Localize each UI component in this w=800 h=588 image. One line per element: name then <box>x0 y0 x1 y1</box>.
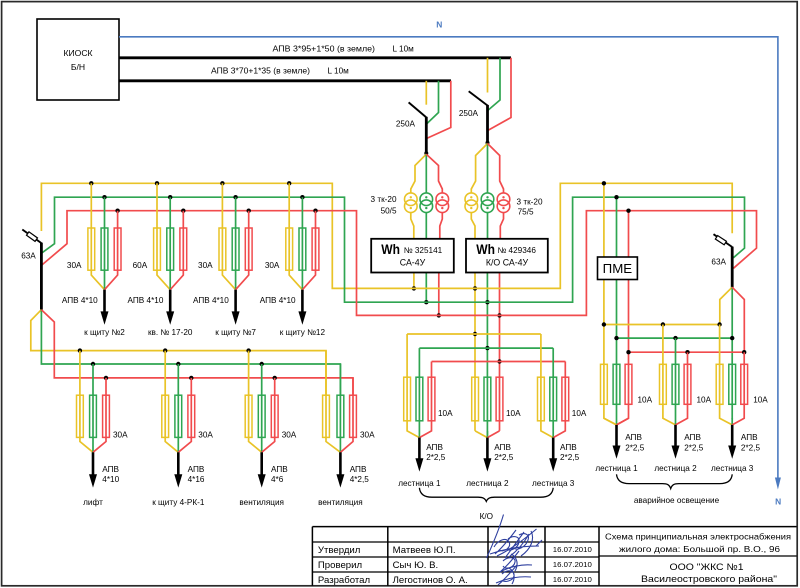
svg-text:К/О СА-4У: К/О СА-4У <box>486 257 529 267</box>
wire phase C to fuse лестница 3 emergency <box>732 352 744 425</box>
fuse 30А phase A (к щиту №7) <box>219 228 226 270</box>
wire phase B QS2 to CT <box>487 144 489 194</box>
CT TA1 phase B <box>420 193 433 206</box>
fuse 30А phase B (к щиту 4-РК-1) <box>175 395 182 437</box>
fuse 30А phase A (к щиту №2) <box>88 228 95 270</box>
feeder arrow вентиляция <box>339 452 342 476</box>
feeder arrow кв. № 17-20 <box>169 290 172 314</box>
wire phase B to fuse лестница 1 K/O <box>418 348 420 438</box>
wire phase B drop to switch QS1 <box>427 81 439 124</box>
fuse 10А phase C (лестница 1 emergency) <box>625 364 632 404</box>
fuse 10А phase B (лестница 2 emergency) <box>672 364 679 404</box>
node Wh2-C on main bus <box>497 313 501 317</box>
fuse 30А phase B (к щиту №12) <box>299 228 306 270</box>
wire phase C drop to switch QS1 <box>427 81 451 139</box>
svg-text:Утвердил: Утвердил <box>318 545 360 556</box>
svg-text:60А: 60А <box>133 261 148 270</box>
wire phase A to PME / emergency group 1 <box>604 183 617 425</box>
node phase C tap к щиту №12 <box>313 209 317 213</box>
node QS1 output <box>424 151 428 155</box>
feeder arrow к щиту №12 <box>301 290 304 314</box>
wire phase A K/O bus <box>407 333 541 335</box>
wire phase C to fuse лестница 1 K/O <box>419 362 431 438</box>
wire phase A to fuse лестница 3 emergency <box>720 325 733 425</box>
fuse 10А phase B (лестница 3 emergency) <box>729 364 736 404</box>
node Wh1-A on bus <box>412 286 416 290</box>
fuse 10А phase A (лестница 2 emergency) <box>660 364 667 404</box>
switch QS4 fuse on blade <box>715 236 726 245</box>
node em-C tap лестница 3 <box>742 350 746 354</box>
svg-text:4*16: 4*16 <box>188 475 205 484</box>
feeder arrow лифт <box>92 452 95 476</box>
wire phase B CT to meter Wh1 <box>425 212 427 239</box>
wire phase C to PME / emergency group 1 <box>617 211 629 425</box>
svg-text:3 тк-20: 3 тк-20 <box>371 195 397 204</box>
wire phase A fan лестница 1 emergency <box>604 418 617 425</box>
svg-text:к щиту №2: к щиту №2 <box>84 328 125 337</box>
svg-text:АПВ: АПВ <box>560 443 577 452</box>
node Wh2-A on main bus <box>473 286 477 290</box>
svg-text:СА-4У: СА-4У <box>400 257 426 267</box>
fuse 10А phase C (лестница 3 K/O) <box>562 377 569 421</box>
node phase A tap к щиту №12 <box>287 181 291 185</box>
wire phase A drop to switch QS2 <box>487 58 489 93</box>
fuse 10А phase A (лестница 1 K/O) <box>404 377 411 421</box>
fuse 10А phase C (лестница 1 K/O) <box>428 377 435 421</box>
fuse 10А phase B (лестница 3 K/O) <box>550 377 557 421</box>
svg-text:АПВ: АПВ <box>494 443 511 452</box>
svg-text:16.07.2010: 16.07.2010 <box>553 545 592 554</box>
feeder arrow к щиту 4-РК-1 <box>177 452 180 476</box>
fuse 30А phase C (к щиту №2) <box>114 228 121 270</box>
svg-text:К/О: К/О <box>480 512 493 521</box>
svg-text:75/5: 75/5 <box>518 208 534 217</box>
svg-text:Б/Н: Б/Н <box>71 62 85 72</box>
svg-text:Василеостровского района": Василеостровского района" <box>641 573 777 584</box>
wire neutral N from kiosk to right side <box>119 37 778 479</box>
node Wh2-A on KO bus <box>473 332 477 336</box>
wire phase A to fuse лестница 2 emergency <box>663 325 676 425</box>
node phase B tap лифт <box>91 362 95 366</box>
title block grid <box>312 527 796 586</box>
feeder arrow лестница 3 K/O <box>552 438 555 461</box>
wire phase C CT to meter Wh1 <box>440 212 443 239</box>
svg-text:АПВ 3*70+1*35 (в земле): АПВ 3*70+1*35 (в земле) <box>211 66 310 75</box>
svg-text:2*2,5: 2*2,5 <box>494 453 514 462</box>
wire phase A CT to meter Wh2 <box>471 212 475 239</box>
wire phase C QS1 to CT <box>426 154 442 193</box>
svg-text:к щиту 4-РК-1: к щиту 4-РК-1 <box>152 498 205 507</box>
wire phase B to fuse к щиту 4-РК-1 <box>177 364 179 452</box>
svg-text:30А: 30А <box>265 261 280 270</box>
node Wh1-C on bus <box>437 313 441 317</box>
wire phase B QS4 output to fuse group <box>731 287 733 419</box>
svg-text:к щиту №7: к щиту №7 <box>215 328 256 337</box>
wire phase A to fuse к щиту №7 <box>222 183 235 289</box>
wire phase C to fuse к щиту 4-РК-1 <box>178 378 191 452</box>
wire Wh1 phase A output <box>413 273 415 289</box>
feeder arrow к щиту №7 <box>234 290 237 314</box>
wire phase C CT to meter Wh2 <box>500 212 503 239</box>
wire phase A to fuse кв. № 17-20 <box>157 183 170 289</box>
svg-text:4*10: 4*10 <box>102 475 119 484</box>
svg-text:лифт: лифт <box>83 498 103 507</box>
node phase B tap к щиту №12 <box>300 195 304 199</box>
svg-text:Сыч Ю. В.: Сыч Ю. В. <box>393 560 439 571</box>
node PME-B tap <box>614 195 618 199</box>
node em-A tap лестница 3 <box>717 322 721 326</box>
fuse 30А phase B (вентиляция) <box>258 395 265 437</box>
wire Wh2 phase B output to stair group 2 <box>486 273 488 438</box>
node phase C tap к щиту 4-РК-1 <box>189 376 193 380</box>
kiosk box КИОСК Б/Н <box>37 19 119 100</box>
wire phase A main bus (upper-left, mid, upper-right) <box>41 183 732 288</box>
svg-text:ООО "ЖКС №1: ООО "ЖКС №1 <box>670 561 744 572</box>
wire phase B to fuse к щиту №2 <box>104 197 106 290</box>
fuse 10А phase A (лестница 1 emergency) <box>601 364 608 404</box>
svg-text:16.07.2010: 16.07.2010 <box>553 575 592 584</box>
wire phase C to fuse лестница 3 K/O <box>553 362 565 438</box>
wire phase A emergency bus <box>604 324 720 326</box>
wire phase B to PME / emergency group 1 <box>616 197 618 425</box>
fuse 30А phase C (к щиту №7) <box>245 228 252 270</box>
feeder arrow к щиту №2 <box>103 290 106 314</box>
node phase A tap к щиту №2 <box>89 181 93 185</box>
svg-text:10А: 10А <box>697 396 712 405</box>
fuse 30А phase B (лифт) <box>90 395 97 437</box>
node phase A tap кв. № 17-20 <box>155 181 159 185</box>
wire phase B fan-in лестница 2 K/O <box>486 431 488 438</box>
node em-C tap лестница 1 <box>626 350 630 354</box>
svg-text:Легостинов О. А.: Легостинов О. А. <box>393 575 468 586</box>
node phase C tap вентиляция <box>273 376 277 380</box>
wire phase B drop to switch QS2 <box>488 58 500 111</box>
wire phase A drop to switch QS1 <box>425 81 427 105</box>
wire phase C emergency bus <box>629 351 745 353</box>
svg-text:№ 429346: № 429346 <box>498 246 537 255</box>
svg-text:АПВ 4*10: АПВ 4*10 <box>260 296 296 305</box>
svg-text:АПВ: АПВ <box>684 433 701 442</box>
wire phase A to fuse вентиляция <box>326 351 340 453</box>
node phase C tap кв. № 17-20 <box>181 209 185 213</box>
CT TA2 phase B <box>481 193 494 206</box>
wire Wh2 phase A output to stair group 2 <box>474 273 476 431</box>
wire phase B main bus (upper-left, mid, upper-right) <box>42 197 745 302</box>
node phase A tap вентиляция <box>246 348 250 352</box>
svg-text:2*2,5: 2*2,5 <box>741 444 761 453</box>
CT TA1 phase C <box>436 193 449 206</box>
svg-text:2*2,5: 2*2,5 <box>426 453 446 462</box>
node QS2 output <box>486 141 490 145</box>
wire phase A QS2 to CT <box>471 144 487 194</box>
meter Wh1 № 325141 СА-4У <box>371 239 454 273</box>
svg-text:250А: 250А <box>396 119 416 128</box>
wire phase B to fuse лестница 3 K/O <box>552 348 554 438</box>
fuse 30А phase A (к щиту №12) <box>286 228 293 270</box>
svg-text:30А: 30А <box>113 430 128 439</box>
svg-text:63А: 63А <box>711 257 726 266</box>
CT TA2 phase C <box>497 193 510 206</box>
node Wh2-C on KO bus <box>497 359 501 363</box>
switch QS1 250А blade <box>409 102 427 117</box>
svg-text:30А: 30А <box>198 430 213 439</box>
brace K/O group <box>419 488 553 502</box>
node Wh2-B on KO bus <box>485 346 489 350</box>
wire phase B to fuse лифт <box>92 364 94 452</box>
wire phase A to fuse к щиту №12 <box>289 183 302 289</box>
svg-text:10А: 10А <box>572 409 587 418</box>
wire phase C to fuse к щиту №2 <box>105 211 118 290</box>
neutral N arrowhead <box>775 478 781 490</box>
fuse 60А phase A (кв. № 17-20) <box>154 228 161 270</box>
svg-text:к щиту №12: к щиту №12 <box>280 328 326 337</box>
wire phase B to fuse вентиляция <box>261 364 263 452</box>
switch QS2 pole <box>486 105 489 144</box>
svg-text:лестница 1: лестница 1 <box>595 464 638 473</box>
wire phase B to fuse кв. № 17-20 <box>169 197 171 290</box>
svg-text:4*6: 4*6 <box>271 475 284 484</box>
fuse 30А phase C (к щиту 4-РК-1) <box>188 395 195 437</box>
node em-B tap лестница 3 <box>730 336 734 340</box>
node phase B tap кв. № 17-20 <box>168 195 172 199</box>
signature Легостинов <box>496 565 531 585</box>
svg-text:лестница 3: лестница 3 <box>532 479 575 488</box>
cable 1 АПВ 3*95+1*50 <box>119 56 511 59</box>
wire phase A QS1 to CT <box>411 154 427 193</box>
wire Wh2 phase C output to stair group 2 <box>499 273 501 431</box>
node PME-C tap <box>626 209 630 213</box>
wire phase B emergency bus <box>617 337 733 339</box>
node phase A tap к щиту 4-РК-1 <box>163 348 167 352</box>
node em-A tap лестница 2 <box>661 322 665 326</box>
wire phase C to fuse лифт <box>93 378 106 452</box>
svg-text:10А: 10А <box>506 409 521 418</box>
fuse 30А phase A (лифт) <box>77 395 84 437</box>
svg-text:2*2,5: 2*2,5 <box>560 453 580 462</box>
wire phase C K/O bus <box>432 361 566 363</box>
svg-text:Wh: Wh <box>476 242 495 257</box>
wire phase C QS2 to CT <box>488 144 504 194</box>
svg-text:L 10м: L 10м <box>328 66 350 75</box>
switch QS1 pole <box>425 117 428 154</box>
svg-text:3 тк-20: 3 тк-20 <box>517 198 543 207</box>
fuse 30А phase B (вентиляция) <box>337 395 344 437</box>
node phase C tap к щиту №7 <box>247 209 251 213</box>
node phase B tap к щиту №2 <box>102 195 106 199</box>
svg-text:АПВ 4*10: АПВ 4*10 <box>62 296 98 305</box>
svg-text:Wh: Wh <box>381 242 400 257</box>
node phase B tap вентиляция <box>260 362 264 366</box>
fuse 60А phase B (кв. № 17-20) <box>167 228 174 270</box>
svg-text:L 10м: L 10м <box>393 44 415 53</box>
svg-text:30А: 30А <box>282 430 297 439</box>
svg-text:Проверил: Проверил <box>318 560 362 571</box>
svg-text:АПВ: АПВ <box>102 465 119 474</box>
fuse 10А phase C (лестница 2 emergency) <box>684 364 691 404</box>
svg-text:16.07.2010: 16.07.2010 <box>553 560 592 569</box>
node Wh1-B on bus <box>424 300 428 304</box>
feeder arrow лестница 1 emergency <box>615 425 618 448</box>
svg-text:вентиляция: вентиляция <box>239 498 284 507</box>
svg-text:10А: 10А <box>438 409 453 418</box>
wire Wh1 phase C output <box>438 273 440 316</box>
node Wh2-B on main bus <box>485 300 489 304</box>
switch QS3 pole <box>40 243 43 310</box>
svg-text:N: N <box>436 20 442 30</box>
svg-text:АПВ: АПВ <box>271 465 288 474</box>
wire phase B QS1 to CT <box>425 154 427 193</box>
wire phase C QS3 output to lower bus <box>41 310 353 396</box>
svg-text:10А: 10А <box>638 396 653 405</box>
node em-B tap лестница 2 <box>673 336 677 340</box>
fuse 10А phase A (лестница 3 emergency) <box>716 364 723 404</box>
wire phase B K/O bus <box>419 347 553 349</box>
switch QS3 fuse on blade <box>27 232 38 242</box>
node phase C tap лифт <box>104 376 108 380</box>
svg-text:30А: 30А <box>360 430 375 439</box>
fuse 10А phase B (лестница 1 emergency) <box>613 364 620 404</box>
svg-text:лестница 1: лестница 1 <box>398 479 441 488</box>
wire phase B QS3 output to lower bus <box>41 310 340 396</box>
signature Матвеев <box>487 515 543 559</box>
svg-text:10А: 10А <box>753 396 768 405</box>
svg-text:АПВ: АПВ <box>741 433 758 442</box>
feeder arrow вентиляция <box>260 452 263 476</box>
cable 2 АПВ 3*70+1*35 <box>119 79 451 82</box>
svg-text:4*2,5: 4*2,5 <box>350 475 370 484</box>
wire phase B to fuse к щиту №12 <box>301 197 303 290</box>
contactor box ПМЕ <box>598 257 638 280</box>
svg-text:АПВ: АПВ <box>426 443 443 452</box>
svg-text:N: N <box>775 497 781 507</box>
node phase A tap лифт <box>78 348 82 352</box>
wire phase C main bus (upper-left, mid, upper-right) <box>42 211 757 316</box>
fuse 10А phase A (лестница 2 K/O) <box>472 377 479 421</box>
wire phase C to fuse к щиту №12 <box>302 211 315 290</box>
signature Сыч <box>500 551 532 572</box>
fuse 30А phase B (к щиту №7) <box>232 228 239 270</box>
wire phase A CT to meter Wh1 <box>411 212 414 239</box>
wire phase A QS4 output <box>720 287 732 324</box>
svg-text:30А: 30А <box>198 261 213 270</box>
node em-B tap лестница 1 <box>614 336 618 340</box>
svg-text:63А: 63А <box>21 251 36 260</box>
fuse 10А phase A (лестница 3 K/O) <box>538 377 545 421</box>
feeder arrow лестница 2 K/O <box>486 438 489 461</box>
node phase B tap к щиту 4-РК-1 <box>176 362 180 366</box>
switch QS2 250А blade <box>469 91 488 105</box>
svg-text:ПМЕ: ПМЕ <box>603 262 633 276</box>
feeder arrow лестница 3 emergency <box>731 425 734 448</box>
node phase A tap к щиту №7 <box>220 181 224 185</box>
svg-text:50/5: 50/5 <box>381 206 397 215</box>
svg-text:АПВ 4*10: АПВ 4*10 <box>128 296 164 305</box>
svg-text:АПВ: АПВ <box>350 465 367 474</box>
svg-text:АПВ 4*10: АПВ 4*10 <box>193 296 229 305</box>
wire phase C to fuse к щиту №7 <box>236 211 249 290</box>
wire phase A to fuse лифт <box>80 351 93 453</box>
wire phase A to fuse вентиляция <box>249 351 262 453</box>
fuse 60А phase C (кв. № 17-20) <box>180 228 187 270</box>
node phase C tap к щиту №2 <box>115 209 119 213</box>
wire phase C drop to switch QS2 <box>488 58 511 131</box>
svg-text:лестница 2: лестница 2 <box>654 464 697 473</box>
wire phase C to fuse лестница 2 emergency <box>676 352 688 425</box>
node PME-A tap <box>602 181 606 185</box>
wire phase B to fuse лестница 2 emergency <box>675 338 677 425</box>
fuse 10А phase C (лестница 2 K/O) <box>496 377 503 421</box>
wire phase C QS4 output <box>732 287 744 352</box>
svg-text:№ 325141: № 325141 <box>404 246 443 255</box>
svg-text:Матвеев Ю.П.: Матвеев Ю.П. <box>393 545 456 556</box>
switch QS4 pole <box>731 247 734 288</box>
svg-text:кв. № 17-20: кв. № 17-20 <box>148 328 193 337</box>
wire phase B to fuse к щиту №7 <box>235 197 237 290</box>
feeder arrow лестница 2 emergency <box>674 425 677 448</box>
svg-text:АПВ 3*95+1*50 (в земле): АПВ 3*95+1*50 (в земле) <box>273 44 376 53</box>
svg-text:2*2,5: 2*2,5 <box>625 444 645 453</box>
svg-text:Схема принципиальная электросн: Схема принципиальная электроснабжения <box>605 531 791 541</box>
wire phase C to fuse кв. № 17-20 <box>170 211 183 290</box>
svg-text:КИОСК: КИОСК <box>63 48 92 58</box>
CT TA2 phase A <box>465 193 478 206</box>
wire phase C fan-in лестница 2 K/O <box>487 431 499 438</box>
wire phase A to fuse лестница 3 K/O <box>541 334 553 438</box>
fuse 30А phase C (вентиляция) <box>350 395 357 437</box>
wire phase A fan-in лестница 2 K/O <box>475 431 487 438</box>
wire phase C to fuse вентиляция <box>262 378 275 452</box>
node em-C tap лестница 2 <box>685 350 689 354</box>
svg-text:Разработал: Разработал <box>318 575 370 586</box>
svg-text:лестница 3: лестница 3 <box>711 464 754 473</box>
svg-text:жилого дома: Большой пр. В.О.,: жилого дома: Большой пр. В.О., 96 <box>619 544 780 554</box>
svg-text:вентиляция: вентиляция <box>318 498 363 507</box>
fuse 30А phase C (лифт) <box>103 395 110 437</box>
wire phase B CT to meter Wh2 <box>487 212 489 239</box>
meter Wh2 № 429346 К/О СА-4У <box>466 239 548 273</box>
svg-text:250А: 250А <box>459 109 479 118</box>
fuse 10А phase C (лестница 3 emergency) <box>741 364 748 404</box>
fuse 30А phase A (вентиляция) <box>323 395 330 437</box>
wire phase B fan лестница 3 emergency <box>731 418 733 425</box>
switch QS3 63А blade <box>22 230 41 244</box>
wire phase A to fuse к щиту 4-РК-1 <box>165 351 178 453</box>
wire phase B to fuse вентиляция <box>339 364 341 452</box>
feeder arrow лестница 1 K/O <box>418 438 421 461</box>
wire phase C fan лестница 1 emergency <box>617 418 629 425</box>
node em-A tap лестница 1 <box>602 322 606 326</box>
CT TA1 phase A <box>405 193 418 206</box>
node phase B tap к щиту №7 <box>233 195 237 199</box>
wire phase A to fuse лестница 1 K/O <box>407 334 419 438</box>
switch QS4 63А blade <box>714 234 733 247</box>
wire phase A to fuse к щиту №2 <box>91 183 104 289</box>
wire phase C to fuse вентиляция <box>340 378 353 452</box>
svg-text:30А: 30А <box>67 261 82 270</box>
fuse 10А phase B (лестница 2 K/O) <box>484 377 491 421</box>
svg-text:аварийное освещение: аварийное освещение <box>634 496 720 505</box>
fuse 30А phase A (вентиляция) <box>245 395 252 437</box>
wire phase A QS3 output to lower bus <box>31 310 326 396</box>
wire Wh1 phase B output <box>425 273 427 303</box>
fuse 30А phase A (к щиту 4-РК-1) <box>162 395 169 437</box>
fuse 30А phase B (к щиту №2) <box>101 228 108 270</box>
svg-text:2*2,5: 2*2,5 <box>684 444 704 453</box>
fuse 10А phase B (лестница 1 K/O) <box>416 377 423 421</box>
brace emergency group <box>617 474 733 488</box>
svg-text:АПВ: АПВ <box>188 465 205 474</box>
svg-text:лестница 2: лестница 2 <box>466 479 509 488</box>
